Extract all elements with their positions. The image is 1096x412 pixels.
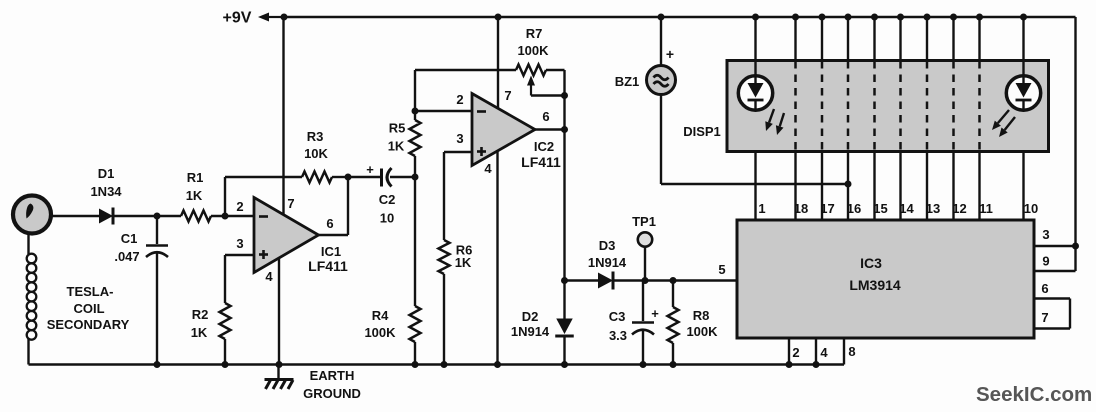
svg-text:1K: 1K [186, 188, 203, 203]
wire: R5 to C2 node [414, 156, 416, 177]
svg-text:9: 9 [1042, 254, 1049, 269]
wire: ground rail [29, 363, 845, 365]
node: ground rail / R2 junction [222, 361, 229, 368]
node: C2/R5/R4 junction [412, 174, 419, 181]
wire: IC3 pin9 [1034, 270, 1076, 272]
wire: IC3 pin4 to ground [815, 338, 817, 365]
svg-text:C1: C1 [121, 231, 138, 246]
wire: R5 node to R7 [415, 69, 516, 71]
svg-text:LF411: LF411 [521, 154, 561, 170]
wire: IC2 pin4 to ground rail [496, 150, 498, 365]
wire: R6 to ground rail [443, 274, 445, 365]
svg-text:BZ1: BZ1 [615, 74, 640, 89]
wire: display column 10 from rail [1022, 17, 1024, 61]
wire: display column 3 from rail [821, 17, 823, 61]
wire: +9V top rail [284, 16, 1076, 18]
R7 wiper arrow [530, 86, 532, 96]
svg-text:3: 3 [456, 131, 463, 146]
resistor R6 [439, 240, 450, 274]
svg-text:TESLA-: TESLA- [67, 284, 114, 299]
svg-text:2: 2 [792, 345, 799, 360]
wire: display column 3 to IC3 [821, 152, 823, 220]
svg-text:5: 5 [718, 262, 725, 277]
tesla coil pickup electrode [13, 196, 51, 234]
svg-text:7: 7 [1041, 310, 1048, 325]
op-amp IC2 [472, 94, 535, 166]
node: rail / DISP1 column 9 junction [976, 14, 983, 21]
resistor R8 [668, 307, 679, 343]
wire: IC1 pin4 to ground rail [278, 258, 280, 365]
svg-text:R1: R1 [187, 170, 204, 185]
node: ground rail / D2 junction [561, 361, 568, 368]
LED DISP1 right emission arrows [998, 110, 1009, 123]
svg-text:100K: 100K [517, 43, 549, 58]
svg-text:R7: R7 [526, 26, 543, 41]
svg-text:.047: .047 [114, 249, 139, 264]
svg-text:18: 18 [794, 201, 808, 216]
svg-text:1N914: 1N914 [588, 255, 627, 270]
svg-text:D3: D3 [599, 238, 616, 253]
IC2 plus sign [477, 150, 486, 153]
node: pin3 / +9V junction [1072, 243, 1079, 250]
node: R7 wiper junction [561, 92, 568, 99]
svg-text:4: 4 [820, 345, 828, 360]
wire: R5 column top riser [414, 70, 416, 120]
svg-text:+: + [666, 46, 674, 62]
svg-text:100K: 100K [364, 325, 396, 340]
wire: DISP1 dashed segment 1 [794, 61, 797, 151]
wire: right +9V drop to IC3 pins 3/9 [1074, 17, 1076, 271]
wire: display column 9 from rail [978, 17, 980, 61]
node: TP1 junction [642, 277, 649, 284]
wire: IC3 pins 6-7 strap [1034, 297, 1070, 299]
svg-text:1N34: 1N34 [90, 184, 122, 199]
node: R3/C2/IC1-out junction [345, 174, 352, 181]
wire: TP1 lead [644, 247, 646, 281]
wire: R8 top lead [672, 281, 674, 308]
wire: display column 8 from rail [952, 17, 954, 61]
resistor R3 [302, 172, 332, 183]
wire: D2 to ground rail [563, 336, 565, 365]
svg-text:C3: C3 [609, 309, 626, 324]
node: rail / BZ1 junction [658, 14, 665, 21]
wire: IC3 pin8 to ground [843, 338, 845, 365]
IC IC3 body [737, 220, 1034, 338]
wire: display column 1 to IC3 [754, 152, 756, 220]
svg-text:IC1: IC1 [321, 244, 341, 259]
svg-text:1N914: 1N914 [511, 324, 550, 339]
wire: DISP1 dashed segment 8 [978, 61, 981, 151]
wire: node down to R4 [414, 177, 416, 306]
svg-text:3: 3 [1042, 227, 1049, 242]
svg-text:COIL: COIL [73, 301, 104, 316]
svg-text:IC2: IC2 [534, 139, 554, 154]
svg-text:EARTH: EARTH [310, 368, 355, 383]
wire: display column 10 to IC3 [1022, 152, 1024, 220]
node: IC2 output junction [561, 126, 568, 133]
node: IC1 pin2 / feedback junction [222, 213, 229, 220]
svg-text:3.3: 3.3 [609, 328, 627, 343]
wire: DISP1 dashed segment 3 [847, 61, 850, 151]
wire: C1 top lead [156, 216, 158, 244]
node: rail / DISP1 column 2 junction [792, 14, 799, 21]
wire: display column 4 to IC3 [847, 152, 849, 220]
wire: feedback to R3 [225, 176, 302, 178]
svg-text:6: 6 [1041, 281, 1048, 296]
wire: DISP1 dashed segment 7 [952, 61, 955, 151]
diode D2 [563, 281, 565, 319]
svg-text:12: 12 [952, 201, 966, 216]
wire: BZ1 top lead [660, 17, 662, 65]
wire: R7 wiper to output [531, 94, 565, 96]
svg-text:SECONDARY: SECONDARY [47, 317, 130, 332]
svg-text:TP1: TP1 [632, 214, 656, 229]
wire: node to C2 [348, 176, 380, 178]
capacitor C3 [632, 321, 654, 324]
wire: D3 to TP1 node [613, 279, 737, 281]
node: ground rail / IC2 pin4 junction [494, 361, 501, 368]
wire: IC2 output [535, 128, 565, 130]
earth ground symbol [277, 365, 279, 380]
resistor R2 [220, 303, 231, 339]
wire: IC1 pin3 input [225, 254, 254, 256]
wire: detector line [565, 279, 599, 281]
wire: C3 bottom lead to ground rail [642, 331, 644, 365]
wire: display column 6 from rail [899, 17, 901, 61]
svg-text:C2: C2 [379, 192, 396, 207]
svg-text:R4: R4 [372, 308, 389, 323]
svg-text:16: 16 [847, 201, 861, 216]
svg-text:10: 10 [1024, 201, 1038, 216]
wire: DISP1 dashed segment 6 [926, 61, 929, 151]
node: ground rail / C3 junction [640, 361, 647, 368]
wire: IC3 pin2 to ground [788, 338, 790, 365]
svg-text:13: 13 [926, 201, 940, 216]
wire: BZ1 bottom lead [660, 95, 662, 185]
svg-text:D1: D1 [98, 166, 115, 181]
wire: display column 4 from rail [847, 17, 849, 61]
op-amp IC1 [254, 198, 319, 273]
svg-text:8: 8 [848, 344, 855, 359]
svg-text:R8: R8 [693, 308, 710, 323]
wire: IC1 output [319, 234, 349, 236]
wire: display column 6 to IC3 [899, 152, 901, 220]
diode D3 [598, 273, 613, 289]
svg-text:SeekIC.com: SeekIC.com [976, 383, 1092, 406]
wire: R7 right lead [546, 69, 565, 71]
svg-text:R3: R3 [307, 129, 324, 144]
wire: R8 to ground rail [672, 343, 674, 365]
resistor R1 [181, 211, 211, 222]
svg-text:3: 3 [236, 236, 243, 251]
node: ground rail / R6 junction [441, 361, 448, 368]
wire: C3 top lead [642, 281, 644, 322]
LED DISP1 left [754, 61, 756, 76]
buzzer BZ1 [647, 66, 676, 95]
wire: display column 7 from rail [926, 17, 928, 61]
node: rail / DISP1 column 1 junction [752, 14, 759, 21]
node: D1/C1/R1 junction [154, 213, 161, 220]
wire: IC2 pin3 input [444, 151, 472, 153]
wire: DISP1 dashed segment 4 [873, 61, 876, 151]
node: R8 junction [670, 277, 677, 284]
svg-text:4: 4 [265, 269, 273, 284]
svg-text:11: 11 [979, 201, 993, 216]
wire: R4 to ground rail [414, 342, 416, 365]
svg-text:R5: R5 [389, 121, 406, 136]
svg-text:100K: 100K [686, 324, 718, 339]
svg-text:7: 7 [504, 88, 511, 103]
svg-text:DISP1: DISP1 [683, 124, 721, 139]
node: rail / DISP1 column 6 junction [897, 14, 904, 21]
node: BZ1 / pin16 column junction [845, 181, 852, 188]
IC1 plus sign [259, 253, 268, 256]
wire: IC3 pin3 [1034, 245, 1076, 247]
power +9V arrow [269, 16, 284, 18]
svg-text:+9V: +9V [223, 10, 252, 27]
svg-text:+: + [651, 306, 659, 321]
wire: IC2 pin2 input [415, 110, 472, 112]
node: rail / DISP1 column 3 junction [819, 14, 826, 21]
node: output/D2/D3 junction [561, 277, 568, 284]
node: ground rail / IC3 pin4 junction [813, 361, 820, 368]
wire: display column 1 from rail [754, 17, 756, 61]
wire: DISP1 dashed segment 2 [821, 61, 824, 151]
wire: IC2 pin7 to +9V rail [497, 17, 499, 109]
svg-text:7: 7 [287, 196, 294, 211]
svg-text:2: 2 [236, 199, 243, 214]
wire: display column 8 to IC3 [952, 152, 954, 220]
wire: R3 to node [332, 176, 348, 178]
svg-text:1K: 1K [191, 325, 208, 340]
IC2 minus sign [477, 110, 486, 113]
svg-text:D2: D2 [522, 309, 539, 324]
wire: display column 2 to IC3 [794, 152, 796, 220]
node: rail / IC2 pin7 junction [495, 14, 502, 21]
LED DISP1 left emission arrows [769, 109, 774, 123]
capacitor C1 [146, 244, 168, 247]
wire: R2 to ground rail [224, 339, 226, 365]
node: ground rail / R8 junction [670, 361, 677, 368]
svg-text:LF411: LF411 [308, 258, 348, 274]
wire: output column riser [563, 70, 565, 281]
node: ground rail / IC1 pin4 junction [276, 361, 283, 368]
svg-text:1K: 1K [388, 139, 405, 154]
wire: tesla coil to D1 [52, 215, 100, 217]
wire: R1 to IC1 pin2 [211, 215, 254, 217]
wire: C2 to R5 node [390, 176, 415, 178]
svg-text:10K: 10K [304, 146, 328, 161]
svg-text:2: 2 [456, 92, 463, 107]
wire: display column 5 to IC3 [873, 152, 875, 220]
svg-text:R2: R2 [192, 307, 209, 322]
wire: coil to ground rail [27, 339, 29, 365]
wire: IC1 pin7 to +9V rail [282, 17, 284, 214]
LED DISP1 right [1022, 61, 1024, 76]
svg-text:6: 6 [542, 109, 549, 124]
wire: BZ1 to pin16 column [661, 183, 848, 185]
wire: display column 7 to IC3 [926, 152, 928, 220]
svg-text:1: 1 [758, 201, 765, 216]
svg-text:17: 17 [820, 201, 834, 216]
resistor R5 [410, 120, 421, 156]
resistor R4 [410, 306, 421, 342]
capacitor C2 [380, 169, 383, 187]
wire: DISP1 dashed segment 5 [899, 61, 902, 151]
svg-text:14: 14 [899, 201, 914, 216]
node: rail / DISP1 column 5 junction [871, 14, 878, 21]
svg-text:IC3: IC3 [860, 255, 882, 271]
wire: feedback riser from pin2 [224, 177, 226, 216]
node: rail / DISP1 column 10 junction [1020, 14, 1027, 21]
node: rail / IC1 pin7 junction [281, 14, 288, 21]
svg-text:GROUND: GROUND [303, 386, 361, 401]
svg-text:6: 6 [326, 216, 333, 231]
wire: C1 bottom lead to ground rail [156, 254, 158, 365]
node: ground rail / IC3 pin2 junction [786, 361, 793, 368]
svg-text:15: 15 [873, 201, 887, 216]
wire: tesla circle to coil [27, 234, 29, 255]
node: ground rail / C1 junction [154, 361, 161, 368]
test point TP1 [638, 232, 652, 246]
diode D1 [99, 209, 113, 224]
svg-text:4: 4 [484, 161, 492, 176]
display DISP1 body [727, 61, 1049, 152]
potentiometer R7 [516, 65, 546, 76]
svg-text:LM3914: LM3914 [849, 277, 901, 293]
node: R5 / IC2 pin2 junction [412, 108, 419, 115]
node: rail / DISP1 column 8 junction [950, 14, 957, 21]
wire: D1 to R1 [113, 215, 181, 217]
wire: display column 9 to IC3 [978, 152, 980, 220]
node: rail / DISP1 column 7 junction [924, 14, 931, 21]
wire: display column 5 from rail [873, 17, 875, 61]
svg-text:10: 10 [380, 211, 394, 226]
wire: display column 2 from rail [794, 17, 796, 61]
node: rail / DISP1 column 4 junction [845, 14, 852, 21]
node: ground rail / R4 junction [412, 361, 419, 368]
inductor: tesla coil secondary winding [27, 254, 37, 264]
IC1 minus sign [259, 215, 268, 218]
svg-text:1K: 1K [455, 255, 472, 270]
svg-text:+: + [366, 162, 374, 177]
